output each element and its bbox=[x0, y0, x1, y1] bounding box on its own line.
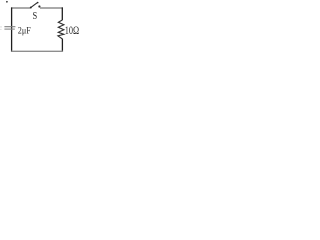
wire left vertical bbox=[11, 7, 13, 51]
stray ink dot bbox=[6, 1, 8, 3]
switch S bbox=[30, 2, 41, 22]
svg-text:10Ω: 10Ω bbox=[65, 25, 79, 37]
wire top-left segment bbox=[11, 7, 30, 9]
wire bottom bbox=[11, 50, 63, 52]
wire right vertical upper bbox=[61, 7, 63, 20]
resistor R 10ohm bbox=[58, 20, 79, 39]
svg-text:2μF: 2μF bbox=[18, 27, 31, 37]
svg-text:S: S bbox=[33, 10, 38, 22]
wire right vertical lower bbox=[61, 39, 63, 52]
capacitor C 2uF bbox=[4, 27, 30, 37]
wire top-right segment bbox=[40, 7, 63, 9]
page-edge artifact marks bbox=[0, 26, 2, 30]
